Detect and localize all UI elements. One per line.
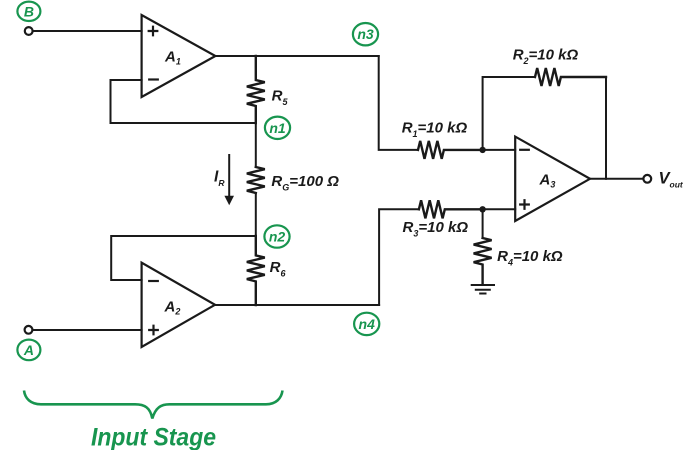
resistor R2 <box>535 68 606 86</box>
svg-text:A: A <box>23 342 34 358</box>
wire n1 to RG <box>255 123 257 167</box>
wire n4 corner up to R3 row <box>379 209 419 305</box>
wire R2 right leg down to output <box>605 77 607 179</box>
A1 triangle body <box>142 15 216 97</box>
wire A2 output to n4 corner <box>215 304 379 306</box>
A3 triangle body <box>515 137 590 221</box>
A2 inverting input minus mark <box>148 280 159 282</box>
A1 inverting input minus mark <box>148 78 159 80</box>
svg-text:RG=100 Ω: RG=100 Ω <box>271 173 339 193</box>
node n3 <box>353 23 378 45</box>
wire R3 junction to A3 plus input <box>483 208 516 210</box>
resistor RG <box>247 167 265 193</box>
resistor R1 <box>418 141 483 159</box>
node n2 <box>264 225 289 247</box>
A2 noninverting input plus mark <box>148 325 159 336</box>
node B <box>17 2 40 21</box>
svg-text:n2: n2 <box>269 229 286 245</box>
terminal Vout circle <box>643 175 651 183</box>
wire A terminal to A2 + input <box>32 329 142 331</box>
wire R2 feedback loop left leg <box>483 77 535 150</box>
ground <box>472 285 494 294</box>
svg-text:R4=10 kΩ: R4=10 kΩ <box>497 248 563 268</box>
terminal B circle <box>25 27 33 35</box>
svg-text:R2=10 kΩ: R2=10 kΩ <box>513 46 579 66</box>
wire A1 output to n3 corner <box>215 55 378 57</box>
resistor R5 <box>247 56 265 123</box>
resistor R6 <box>247 236 265 305</box>
op-amp U A2 <box>142 263 215 347</box>
wire RG to n2 <box>255 193 257 236</box>
op-amp U A1 <box>142 15 216 97</box>
junction dot at A3 minus input <box>479 147 485 153</box>
wire R1 junction to A3 minus input <box>483 149 516 151</box>
resistor R4 <box>474 238 492 283</box>
A1 noninverting input plus mark <box>148 26 159 37</box>
brace input stage <box>24 391 283 419</box>
wire B terminal to A1 + input <box>33 30 142 32</box>
wire A2 feedback: n2 left, down, right to minus input <box>111 236 256 280</box>
svg-text:R1=10 kΩ: R1=10 kΩ <box>402 120 468 140</box>
svg-text:n1: n1 <box>269 120 286 136</box>
svg-text:B: B <box>24 3 34 19</box>
junction dot at A3 plus input <box>479 206 485 212</box>
node n1 <box>265 117 290 139</box>
wire A1 feedback: minus input left, down, right to n1 <box>111 80 256 123</box>
current arrow IR <box>224 154 234 205</box>
svg-text:n4: n4 <box>359 316 376 332</box>
node n4 <box>354 313 379 335</box>
node A <box>17 340 40 361</box>
A3 inverting input minus mark <box>519 149 530 151</box>
A2 triangle body <box>142 263 215 347</box>
svg-text:Input Stage: Input Stage <box>91 423 216 450</box>
terminal A circle <box>25 326 33 334</box>
svg-text:n3: n3 <box>357 26 374 42</box>
wire n3 corner down to R1 row <box>379 56 418 150</box>
op-amp U A3 <box>515 137 590 221</box>
resistor R3 <box>419 200 483 218</box>
wire R4 junction down <box>482 209 484 237</box>
svg-text:R3=10 kΩ: R3=10 kΩ <box>403 219 469 239</box>
A3 noninverting input plus mark <box>519 199 530 210</box>
wire A3 output to Vout terminal <box>590 178 643 180</box>
